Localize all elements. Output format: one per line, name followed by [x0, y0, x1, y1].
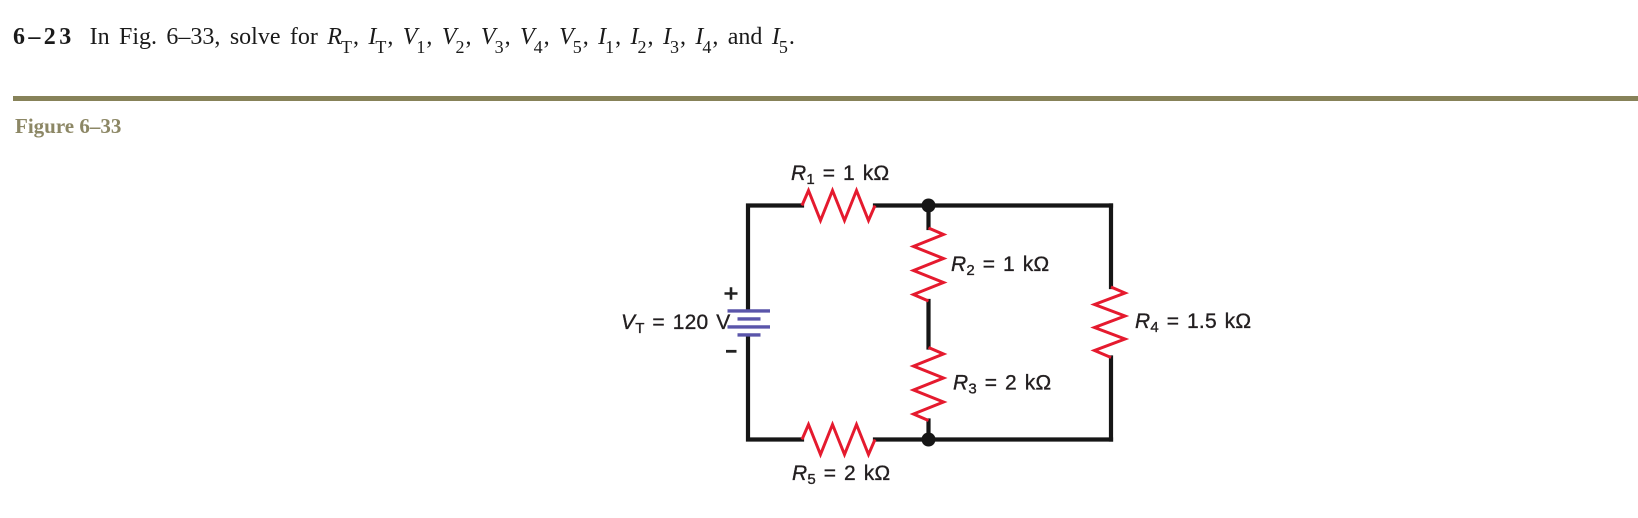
svg-text:R3 = 2 kΩ: R3 = 2 kΩ — [953, 372, 1051, 398]
wire: stub from node A down to R2 — [926, 206, 930, 229]
resistor R4 (zigzag) — [1095, 287, 1126, 358]
olive horizontal rule — [13, 96, 1638, 101]
wire: right upper segment (top-right corner to R4) — [1109, 206, 1113, 288]
figure caption "Figure 6-33" — [15, 114, 121, 139]
resistor R3 (zigzag) — [914, 348, 944, 421]
resistor R1 (zigzag) — [802, 191, 875, 221]
node A (top junction dot) — [922, 199, 936, 213]
node B (bottom junction dot) — [922, 433, 936, 447]
wire: top-left segment (left corner to R1) — [748, 206, 802, 310]
problem statement text — [13, 24, 795, 51]
wire: top-right segment (R1 to top-right corner) — [875, 203, 1111, 207]
label VT = 120 V — [621, 311, 730, 337]
wire: bottom-right segment (R5 to bottom-right corner) — [875, 437, 1111, 441]
label R5 = 2 k-ohm — [792, 462, 890, 488]
minus polarity mark — [726, 350, 737, 353]
wire: right lower segment (R4 to bottom-right corner) — [1109, 358, 1113, 440]
wire: left lower segment (battery to bottom-left corner) — [748, 337, 802, 440]
label R4 = 1.5 k-ohm — [1135, 310, 1251, 336]
svg-text:R2 = 1 kΩ: R2 = 1 kΩ — [951, 253, 1049, 279]
resistor R2 (zigzag) — [914, 228, 944, 301]
label R2 = 1 k-ohm — [951, 253, 1049, 279]
battery VT (four blue plates) — [728, 311, 771, 335]
wire: segment between R2 and R3 — [926, 301, 930, 348]
wire: stub from R3 down to node B — [926, 421, 930, 440]
svg-text:R1 = 1 kΩ: R1 = 1 kΩ — [791, 162, 889, 188]
plus polarity mark — [725, 287, 738, 300]
resistor R5 (zigzag) — [802, 425, 875, 455]
svg-text:VT = 120 V: VT = 120 V — [621, 311, 730, 337]
label R1 = 1 k-ohm — [791, 162, 889, 188]
svg-text:R4 = 1.5 kΩ: R4 = 1.5 kΩ — [1135, 310, 1251, 336]
label R3 = 2 k-ohm — [953, 372, 1051, 398]
svg-text:R5 = 2 kΩ: R5 = 2 kΩ — [792, 462, 890, 488]
